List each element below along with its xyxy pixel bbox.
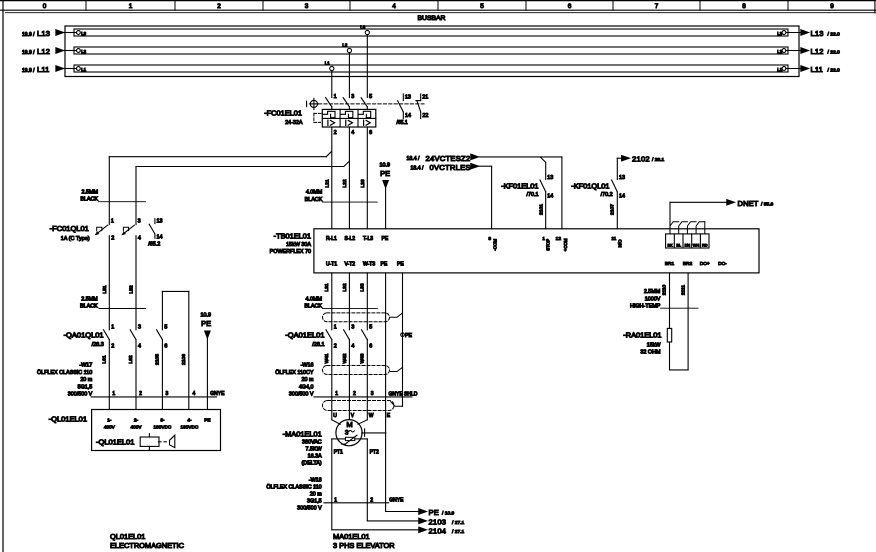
FC01EL01 aux contact 13/14 — [402, 94, 404, 101]
svg-text:/ 22.0: / 22.0 — [828, 31, 841, 37]
cable W16 line — [314, 396, 412, 398]
node L3 right — [782, 31, 786, 35]
PE terminal circle — [401, 333, 405, 337]
svg-text:MA01EL01: MA01EL01 — [333, 532, 370, 541]
svg-text:2.5MM: 2.5MM — [82, 189, 99, 195]
svg-text:L1: L1 — [777, 67, 782, 72]
svg-text:PE: PE — [381, 261, 388, 267]
svg-text:DNET: DNET — [738, 199, 759, 208]
thermal overload hook — [341, 111, 353, 117]
svg-text:0VCTRLES: 0VCTRLES — [430, 163, 471, 172]
svg-text:/ 55.6: / 55.6 — [761, 201, 774, 207]
svg-text:1000V: 1000V — [645, 296, 661, 302]
svg-text:L1: L1 — [325, 60, 330, 65]
svg-text:W43: W43 — [360, 353, 366, 363]
svg-text:6: 6 — [568, 3, 572, 10]
svg-text:V-T2: V-T2 — [345, 261, 356, 267]
svg-text:(DELTA): (DELTA) — [302, 461, 322, 467]
wire — [366, 107, 368, 110]
svg-text:/ 10.9: / 10.9 — [442, 511, 455, 517]
svg-text:PT2: PT2 — [370, 450, 379, 456]
svg-text:4: 4 — [392, 3, 396, 10]
svg-text:ÖLFLEX CLASSIC 110: ÖLFLEX CLASSIC 110 — [266, 483, 321, 490]
svg-text:7: 7 — [655, 3, 659, 10]
FC01EL01 pole pin 5/6 contact blade — [361, 98, 367, 107]
svg-text:L12: L12 — [811, 47, 824, 56]
svg-text:18.4 /: 18.4 / — [411, 165, 425, 171]
svg-text:/ 27.1: / 27.1 — [452, 529, 465, 535]
svg-text:10.9: 10.9 — [380, 163, 391, 169]
shield symbol lower (motor) — [323, 401, 395, 411]
tap node L1 on busbar — [330, 66, 334, 70]
svg-text:L32: L32 — [342, 283, 348, 291]
wire PE from drive — [385, 273, 387, 433]
svg-text:13: 13 — [157, 219, 163, 225]
wire 2105 — [161, 340, 163, 410]
svg-text:5G1,5: 5G1,5 — [78, 385, 93, 391]
svg-text:1: 1 — [334, 94, 337, 100]
wire PT1 — [332, 438, 346, 440]
svg-text:3: 3 — [138, 219, 141, 225]
svg-text:L33: L33 — [360, 283, 366, 291]
svg-text:19.9 /: 19.9 / — [22, 32, 35, 38]
svg-text:13: 13 — [547, 175, 553, 181]
svg-text:3: 3 — [166, 391, 169, 397]
svg-text:13: 13 — [405, 94, 411, 100]
wire W42 — [348, 340, 350, 397]
svg-text:20 m: 20 m — [80, 377, 92, 383]
svg-text:2: 2 — [111, 235, 114, 241]
svg-text:4-: 4- — [187, 418, 192, 423]
border frame — [0, 0, 876, 2]
svg-text:2: 2 — [139, 391, 142, 397]
svg-text:6: 6 — [369, 343, 372, 349]
svg-text:20 m: 20 m — [310, 491, 322, 497]
svg-text:L2: L2 — [342, 42, 347, 47]
wire from L3 down to FC01EL01 — [366, 35, 368, 98]
QA01QL01 contact 3/4 — [130, 330, 136, 340]
svg-text:2104: 2104 — [429, 526, 447, 535]
svg-text:L12: L12 — [37, 47, 50, 56]
svg-text:15kW 30A: 15kW 30A — [286, 242, 311, 248]
svg-text:GNYE: GNYE — [389, 497, 404, 503]
svg-text:-RA01EL01: -RA01EL01 — [623, 330, 661, 339]
svg-text:3: 3 — [305, 3, 309, 10]
svg-text:19.9 /: 19.9 / — [22, 68, 35, 74]
svg-text:3: 3 — [345, 429, 349, 436]
magnetic trip I> — [363, 120, 365, 125]
wire L62 — [135, 340, 137, 410]
bus bar L13 — [74, 29, 788, 36]
QA01EL01 contact 1/2 — [326, 330, 332, 340]
svg-text:PE: PE — [405, 333, 412, 339]
wire W43 — [366, 340, 368, 397]
svg-text:2105: 2105 — [155, 354, 161, 365]
svg-text:5: 5 — [164, 325, 167, 331]
svg-text:24VCTESZ2: 24VCTESZ2 — [426, 154, 471, 163]
svg-text:M: M — [346, 420, 352, 429]
svg-text:3-: 3- — [160, 418, 165, 423]
svg-text:2106: 2106 — [181, 354, 187, 365]
destination arrow PE / 10.9 — [386, 511, 419, 513]
FC01EL01 pole pin 1/2 contact blade — [326, 98, 332, 107]
svg-text:U: U — [333, 413, 337, 419]
connector loop DN-WH — [687, 222, 696, 234]
svg-text:8: 8 — [742, 3, 746, 10]
svg-text:HIGH-TEMP: HIGH-TEMP — [630, 304, 661, 310]
svg-text:S-L2: S-L2 — [345, 236, 356, 242]
svg-text:-QA01QL01: -QA01QL01 — [64, 331, 104, 340]
svg-text:PE: PE — [204, 418, 210, 423]
svg-text:DN: DN — [685, 243, 691, 247]
connector pin RD riser — [704, 222, 706, 234]
QA01EL01 contact 5/6 — [362, 330, 368, 340]
svg-text:2103: 2103 — [429, 518, 447, 527]
svg-text:L11: L11 — [811, 65, 824, 74]
svg-text:ÖLFLEX CLASSIC 110: ÖLFLEX CLASSIC 110 — [37, 369, 92, 376]
svg-text:-W18: -W18 — [309, 477, 322, 483]
svg-text:PE: PE — [429, 508, 440, 517]
svg-text:E: E — [387, 413, 391, 419]
node L2 right — [782, 49, 786, 53]
svg-text:1: 1 — [111, 325, 114, 331]
motor earth link — [362, 432, 386, 434]
svg-text:W41: W41 — [324, 353, 330, 363]
svg-text:-QL01EL01: -QL01EL01 — [96, 438, 134, 447]
wire — [108, 236, 110, 330]
svg-text:4: 4 — [351, 130, 354, 136]
wire from L1 down to FC01EL01 — [331, 71, 333, 98]
svg-text:-W16: -W16 — [301, 363, 314, 369]
column numbers 0-9 — [43, 3, 835, 10]
svg-text:300/500 V: 300/500 V — [297, 505, 322, 511]
magnetic trip I> — [345, 120, 347, 125]
node L1 left — [77, 67, 81, 71]
svg-text:L3: L3 — [81, 31, 86, 36]
svg-text:5: 5 — [369, 94, 372, 100]
svg-text:-MA01EL01: -MA01EL01 — [283, 429, 322, 438]
svg-text:13: 13 — [619, 175, 625, 181]
svg-text:L51: L51 — [102, 285, 108, 293]
tap node L3 on busbar — [365, 30, 369, 34]
magnetic trip I> — [327, 120, 329, 125]
svg-text:-TB01EL01: -TB01EL01 — [274, 231, 311, 240]
svg-text:-QA01EL01: -QA01EL01 — [285, 331, 324, 340]
svg-text:4.0MM: 4.0MM — [306, 190, 323, 196]
svg-text:1: 1 — [334, 497, 337, 503]
svg-text:2110: 2110 — [662, 284, 668, 295]
svg-text:-FC01EL01: -FC01EL01 — [264, 108, 302, 117]
svg-text:L2: L2 — [777, 49, 782, 54]
svg-text:RD: RD — [702, 243, 708, 247]
svg-text:ELECTROMAGNETIC: ELECTROMAGNETIC — [110, 541, 185, 550]
svg-text:6: 6 — [369, 130, 372, 136]
QA01QL01 contact 5/6 — [157, 330, 163, 340]
svg-text:/ 28.1: / 28.1 — [652, 157, 665, 163]
svg-text:L11: L11 — [37, 65, 50, 74]
svg-text:/70.2: /70.2 — [601, 192, 613, 198]
svg-text:4: 4 — [351, 343, 354, 349]
FC01EL01 pole pin 3/4 contact blade — [343, 98, 349, 107]
svg-text:300/500 V: 300/500 V — [68, 392, 93, 398]
motor wires into circle — [331, 397, 333, 420]
svg-text:L21: L21 — [324, 179, 330, 187]
svg-text:4: 4 — [138, 343, 141, 349]
destination arrow L12 / 22.0 — [786, 50, 801, 52]
FC01EL01 dashed mechanical link line — [319, 103, 425, 105]
svg-text:1: 1 — [111, 219, 114, 225]
svg-text:GNYE: GNYE — [210, 391, 225, 397]
svg-text:9: 9 — [830, 3, 834, 10]
svg-text:1: 1 — [129, 3, 133, 10]
svg-text:19.9 /: 19.9 / — [22, 50, 35, 56]
svg-text:L22: L22 — [342, 179, 348, 187]
svg-text:PE: PE — [382, 236, 389, 242]
svg-text:4: 4 — [138, 235, 141, 241]
svg-text:22: 22 — [422, 113, 428, 119]
wire E / GNYE down — [385, 433, 387, 512]
svg-text:T-L3: T-L3 — [363, 236, 373, 242]
svg-text:BR2: BR2 — [683, 261, 693, 267]
svg-text:12: 12 — [556, 236, 562, 242]
svg-text:W42: W42 — [342, 353, 348, 363]
svg-text:+COM: +COM — [563, 238, 568, 251]
QA01QL01 contact 1/2 — [104, 330, 110, 340]
svg-text:BLACK: BLACK — [305, 197, 323, 203]
svg-text:4: 4 — [193, 391, 196, 397]
svg-text:3: 3 — [371, 391, 374, 397]
svg-text:W-T3: W-T3 — [363, 261, 375, 267]
DNET arrow — [669, 202, 671, 234]
wire PT2 — [355, 438, 368, 440]
wire breaker to drive — [366, 127, 368, 229]
svg-text:L13: L13 — [811, 29, 824, 38]
svg-text:GNYE SHLD: GNYE SHLD — [389, 391, 418, 397]
motor MA01EL01 circle — [336, 420, 362, 446]
wire 2111 (BR2) — [687, 273, 689, 370]
bracket wire from contact 5 up and over to terminal 4 — [161, 291, 163, 329]
svg-text:400V: 400V — [104, 425, 116, 430]
cable W17 line — [91, 396, 216, 398]
svg-text:11: 11 — [611, 236, 616, 242]
svg-text:32 OHM: 32 OHM — [640, 349, 661, 355]
svg-text:BUSBAR: BUSBAR — [418, 15, 446, 22]
wire 2110 (BR1) — [669, 273, 671, 329]
svg-text:5: 5 — [480, 3, 484, 10]
source arrow 19.9 / L13 — [64, 32, 77, 34]
svg-text:3: 3 — [351, 94, 354, 100]
wire resistor bottom loop — [669, 342, 671, 370]
brake unit QL01EL01 box — [92, 410, 221, 451]
svg-text:14: 14 — [157, 235, 163, 241]
svg-text:20 m: 20 m — [302, 377, 314, 383]
thermistor symbol — [345, 437, 354, 440]
svg-text:W: W — [369, 413, 374, 419]
cable W18 line — [324, 502, 389, 504]
shield symbol upper — [323, 313, 390, 322]
svg-text:L31: L31 — [324, 283, 330, 291]
svg-text:BR1: BR1 — [665, 261, 675, 267]
svg-text:2: 2 — [334, 130, 337, 136]
svg-text:180VDC: 180VDC — [181, 425, 199, 430]
connector loop BK-BL — [670, 222, 679, 234]
svg-text:-FC01QL01: -FC01QL01 — [50, 224, 89, 233]
svg-text:STOP: STOP — [546, 239, 551, 251]
svg-text:/70.1: /70.1 — [527, 192, 539, 198]
FC01QL01 aux contact 13/14 — [154, 219, 156, 224]
wire breaker to drive — [348, 127, 350, 229]
FC01EL01 manual operator (crossed circle) — [310, 100, 317, 107]
wire from L2 down to FC01EL01 — [348, 53, 350, 98]
svg-text:1: 1 — [335, 391, 338, 397]
svg-text:5: 5 — [369, 325, 372, 331]
junction diagonal to KF01EL01 — [540, 157, 546, 163]
svg-text:/65.2: /65.2 — [148, 242, 160, 248]
svg-text:24-32A: 24-32A — [285, 120, 303, 126]
svg-text:3: 3 — [138, 325, 141, 331]
shield symbol middle — [323, 366, 390, 375]
svg-text:18.4 /: 18.4 / — [407, 156, 421, 162]
bus bar L11 — [74, 65, 788, 72]
svg-text:2111: 2111 — [680, 285, 686, 295]
node L1 right — [782, 67, 786, 71]
wire — [348, 107, 350, 110]
svg-text:4G4,0: 4G4,0 — [299, 385, 314, 391]
svg-text:2102: 2102 — [632, 155, 650, 164]
svg-text:V: V — [351, 413, 355, 419]
svg-text:/ 22.0: / 22.0 — [828, 49, 841, 55]
svg-text:14: 14 — [405, 113, 411, 119]
svg-text:L13: L13 — [37, 29, 50, 38]
wire L33 drive output — [366, 273, 368, 330]
svg-text:15kW: 15kW — [647, 342, 662, 348]
svg-text:/ 27.1: / 27.1 — [452, 520, 465, 526]
svg-text:300/500 V: 300/500 V — [289, 392, 314, 398]
source arrow 19.9 / L12 — [64, 50, 77, 52]
destination arrow 2103 / 27.1 — [367, 520, 419, 522]
busbar outer box — [65, 26, 799, 77]
svg-text:ÖLFLEX 110CY: ÖLFLEX 110CY — [275, 369, 314, 376]
svg-text:180VDC: 180VDC — [154, 425, 172, 430]
svg-text:2: 2 — [370, 497, 373, 503]
svg-text:/65.1: /65.1 — [397, 120, 408, 126]
svg-text:N/O: N/O — [618, 239, 623, 247]
svg-text:R-L1: R-L1 — [326, 236, 337, 242]
svg-text:PE: PE — [397, 261, 404, 267]
svg-text:400V: 400V — [131, 425, 143, 430]
svg-text:L61: L61 — [101, 355, 107, 363]
svg-text:380VAC: 380VAC — [302, 439, 322, 445]
svg-text:POWERFLEX 70: POWERFLEX 70 — [270, 249, 311, 255]
svg-text:0: 0 — [43, 3, 47, 10]
svg-text:2-: 2- — [134, 418, 139, 423]
DeviceNet connector block BK BL DN WH RD — [666, 234, 709, 248]
thermal overload hook — [359, 111, 371, 117]
FC01EL01 aux contact 21/22 (NC) — [420, 94, 422, 101]
svg-text:6: 6 — [164, 343, 167, 349]
svg-text:/28.3: /28.3 — [92, 342, 104, 348]
wire W41 — [331, 340, 333, 397]
svg-text:8: 8 — [488, 236, 491, 242]
svg-text:2101: 2101 — [538, 204, 544, 215]
wire L31 drive output — [331, 273, 333, 330]
svg-text:L3: L3 — [777, 31, 782, 36]
destination arrow L11 / 22.0 — [786, 68, 801, 70]
svg-text:3 PHS ELEVATOR: 3 PHS ELEVATOR — [333, 541, 395, 550]
relay contact KF01EL01 13/14 — [545, 162, 547, 179]
svg-text:WH: WH — [693, 243, 700, 247]
svg-text:1: 1 — [334, 325, 337, 331]
svg-text:BLACK: BLACK — [80, 304, 98, 310]
source arrow 19.9 / L11 — [64, 68, 77, 70]
svg-text:2: 2 — [334, 343, 337, 349]
svg-text:QL01EL01: QL01EL01 — [110, 532, 145, 541]
svg-text:3G1,5: 3G1,5 — [307, 498, 322, 504]
svg-text:21: 21 — [422, 94, 428, 100]
svg-text:L3: L3 — [360, 24, 365, 29]
destination arrow L13 / 22.0 — [786, 32, 801, 34]
svg-text:DC+: DC+ — [700, 261, 710, 267]
svg-text:-COM: -COM — [492, 239, 497, 251]
brake coil symbol — [140, 437, 159, 446]
svg-text:14: 14 — [619, 194, 625, 200]
wire L61 — [108, 340, 110, 410]
wire branch to FC01QL01 pole 1 — [109, 156, 326, 158]
svg-text:/ 22.0: / 22.0 — [828, 67, 841, 73]
dash and horn symbol — [158, 441, 161, 443]
destination arrow 2102 / 28.1 — [616, 158, 618, 179]
node L2 left — [77, 49, 81, 53]
connector loop WH-RD — [696, 222, 705, 234]
wire — [135, 236, 137, 330]
svg-text:L52: L52 — [129, 285, 135, 293]
FC01EL01 dashed link C-shape — [314, 112, 322, 114]
svg-text:-KF01QL01: -KF01QL01 — [571, 181, 609, 190]
FC01EL01 main box with thermal/magnetic trips — [322, 109, 376, 127]
svg-text:2: 2 — [353, 391, 356, 397]
svg-text:2.5MM: 2.5MM — [644, 289, 661, 295]
svg-text:2: 2 — [217, 3, 221, 10]
svg-text:L62: L62 — [128, 355, 134, 363]
svg-text:1A (C Type): 1A (C Type) — [61, 236, 90, 242]
svg-text:14: 14 — [547, 194, 553, 200]
wire L32 drive output — [348, 273, 350, 330]
connector loop BL-DN — [679, 222, 688, 234]
svg-text:BK: BK — [667, 243, 673, 247]
relay contact KF01QL01 13/14 — [612, 180, 618, 192]
svg-text:1-: 1- — [107, 418, 112, 423]
tap node L2 on busbar — [347, 48, 351, 52]
svg-text:2: 2 — [111, 343, 114, 349]
svg-text:-W17: -W17 — [79, 363, 92, 369]
svg-text:/28.1: /28.1 — [312, 342, 324, 348]
svg-text:L23: L23 — [360, 179, 366, 187]
svg-text:PE: PE — [380, 169, 390, 178]
svg-text:3: 3 — [351, 325, 354, 331]
wire PE shield drain — [402, 273, 404, 406]
svg-text:2.5MM: 2.5MM — [81, 297, 98, 303]
svg-text:PE: PE — [201, 319, 211, 328]
svg-text:BLACK: BLACK — [80, 197, 98, 203]
svg-text:BL: BL — [676, 243, 681, 247]
svg-text:DC-: DC- — [718, 261, 727, 267]
svg-text:U-T1: U-T1 — [326, 261, 337, 267]
wire — [331, 107, 333, 110]
svg-text:L2: L2 — [81, 49, 86, 54]
svg-text:10.9: 10.9 — [201, 313, 212, 319]
bus bar L12 — [74, 47, 788, 54]
svg-text:-QL01EL01: -QL01EL01 — [49, 415, 87, 424]
